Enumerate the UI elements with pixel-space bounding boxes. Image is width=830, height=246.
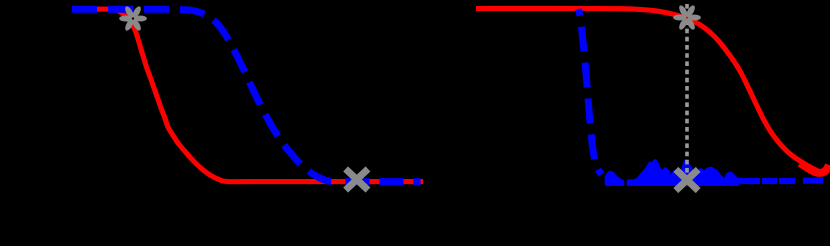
blue dashed curve sigmoid part, left plot: [72, 9, 336, 181]
blue dashed curve bottom flat part, left plot: [336, 178, 421, 185]
gray star marker, left plot top: [119, 5, 147, 32]
blue noisy segment 2, right plot: [629, 161, 738, 184]
gray star marker, right plot top: [673, 4, 701, 31]
gray X marker, right plot bottom: [676, 169, 698, 190]
blue noisy segment 1, right plot: [607, 173, 623, 185]
gray X marker, left plot bottom: [346, 169, 368, 190]
red thick tail overlay, right plot: [800, 163, 829, 173]
blue dashed flat tail, right plot: [738, 178, 824, 185]
gray dotted vertical line, right plot: [685, 4, 689, 178]
blue dashed plunge, right plot: [579, 9, 602, 175]
red solid curve, right plot: [476, 8, 829, 172]
red solid curve, left plot: [72, 9, 423, 182]
